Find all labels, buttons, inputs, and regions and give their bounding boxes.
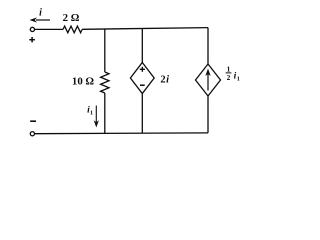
svg-text:10 Ω: 10 Ω [72, 75, 94, 87]
svg-text:1: 1 [90, 109, 93, 116]
svg-text:2i: 2i [160, 74, 169, 85]
wire bottom rail [35, 132, 208, 135]
wire branch half-i1 top [207, 28, 209, 64]
svg-text:i: i [39, 8, 42, 19]
terminal bottom-left [30, 132, 34, 136]
dependent voltage source 2i diamond [130, 63, 154, 94]
resistor R1 2ohm [63, 26, 82, 33]
terminal top-left [30, 27, 34, 31]
current arrow i1 down [94, 106, 99, 128]
wire top rail [82, 28, 208, 30]
wire branch half-i1 bottom [207, 96, 209, 133]
svg-text:2 Ω: 2 Ω [63, 12, 80, 24]
resistor R2 10ohm [101, 72, 109, 93]
dependent current source half-i1 diamond [196, 64, 221, 96]
label minus inside 2i source [140, 84, 145, 86]
label + top terminal [29, 37, 35, 42]
arrow inside current source [205, 69, 210, 91]
wire branch 10ohm bottom [104, 93, 106, 133]
svg-text:1: 1 [237, 75, 240, 82]
label minus bottom terminal [30, 120, 36, 122]
wire branch 2i bottom [141, 94, 143, 134]
svg-text:2: 2 [227, 73, 231, 82]
wire branch 2i top [141, 28, 143, 62]
wire top-left to resistor R1 [35, 28, 63, 30]
current arrow i [30, 17, 51, 22]
label + inside 2i source [140, 67, 145, 72]
wire branch 10ohm top [104, 29, 106, 72]
